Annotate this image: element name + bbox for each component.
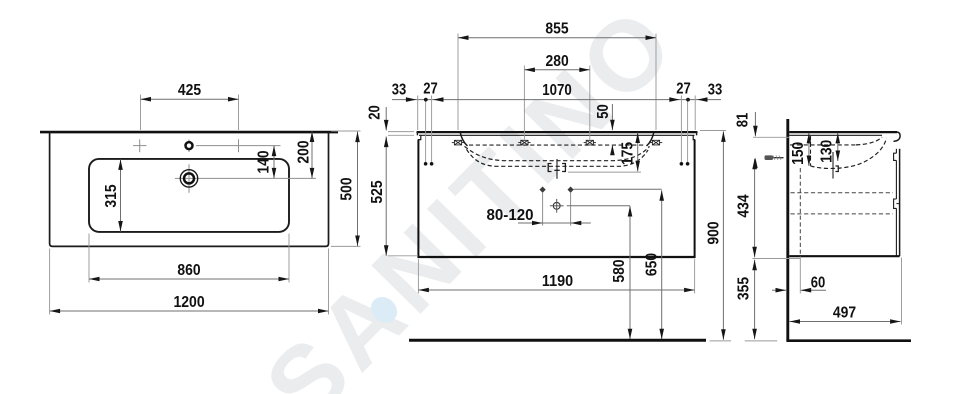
dimension 150: [808, 133, 810, 166]
svg-text:33: 33: [392, 82, 407, 99]
dimension 900 extension: [700, 130, 726, 132]
svg-text:355: 355: [736, 277, 753, 301]
tap hole position far right: [652, 140, 659, 145]
dimension 20: [385, 107, 387, 130]
svg-text:900: 900: [705, 221, 722, 244]
dimension 1190: [418, 289, 694, 291]
dimension 1190 extension lines: [417, 259, 419, 294]
cabinet bottom side view: [789, 255, 899, 257]
dimension 860 extension lines: [88, 234, 90, 283]
supply height line to 650: [574, 188, 662, 190]
dimension 280: [524, 69, 589, 71]
drain outlet: [556, 159, 558, 179]
left view tap hole cross right: [238, 139, 240, 152]
dimension 650: [661, 190, 663, 339]
svg-text:27: 27: [676, 80, 691, 97]
dimension 580: [629, 206, 631, 339]
tap hole position far left: [454, 140, 461, 145]
left view basin outer rim: [50, 131, 329, 246]
svg-text:525: 525: [369, 180, 386, 204]
hidden bowl inner contour dashed: [465, 146, 650, 160]
svg-text:434: 434: [736, 194, 753, 218]
svg-text:1190: 1190: [542, 273, 573, 290]
floor line side view: [786, 339, 911, 342]
svg-text:175: 175: [620, 142, 637, 166]
dimension 50: [611, 104, 613, 130]
dimension 81: [754, 112, 756, 136]
hidden bowl front dashed side: [856, 137, 882, 145]
washbasin slab bottom: [419, 134, 695, 136]
fixing screws right pair: [680, 162, 684, 166]
dimension 855 extension lines: [457, 34, 459, 131]
dimension 425: [141, 98, 239, 100]
svg-text:860: 860: [177, 262, 200, 279]
left view centerline through overflow hole: [133, 145, 147, 147]
handle recess bottom drawer: [894, 199, 897, 208]
dimension 355: [754, 260, 756, 340]
dimension 20 extensions: [388, 131, 414, 133]
dimension 280 extension lines: [523, 66, 525, 140]
water supply connection right: [567, 186, 573, 192]
dimension 434: [754, 159, 756, 258]
water supply connection left: [539, 186, 545, 192]
bowl left visible edge: [460, 133, 467, 146]
left view faucet hole: [180, 170, 197, 187]
left view faucet hole centerlines: [188, 164, 190, 192]
handle recess top drawer: [894, 153, 897, 160]
watermark blue drop: [366, 292, 403, 329]
dimension 315: [120, 159, 122, 231]
dimension 1200: [50, 310, 329, 312]
side slab bottom: [789, 134, 882, 136]
bowl right visible edge: [647, 133, 654, 146]
svg-text:1070: 1070: [542, 82, 572, 99]
svg-text:650: 650: [644, 253, 661, 276]
floor line middle view: [409, 339, 706, 342]
svg-text:315: 315: [103, 184, 120, 208]
hidden bowl back wall dashed: [810, 136, 812, 166]
wall line: [786, 119, 789, 341]
waste height line to 580: [567, 205, 630, 207]
svg-text:1200: 1200: [173, 294, 204, 311]
svg-text:20: 20: [367, 105, 384, 120]
siphon space dashed line: [799, 168, 801, 256]
hidden bowl bottom dashed side: [811, 138, 887, 168]
cabinet right edge: [694, 140, 696, 257]
left view wall line: [40, 131, 338, 134]
basin front rim: [894, 132, 901, 141]
svg-text:580: 580: [611, 259, 628, 282]
washbasin slab top: [418, 131, 697, 133]
tap hole position left: [521, 140, 528, 145]
svg-text:81: 81: [735, 112, 752, 127]
left view basin inner bowl: [89, 159, 289, 232]
cabinet bottom edge: [417, 256, 695, 258]
drawer front line: [899, 149, 901, 256]
hidden slab underside dashed: [469, 144, 645, 146]
dimension 130: [837, 133, 839, 161]
dimension 80-120: [518, 222, 591, 224]
svg-text:500: 500: [339, 177, 356, 200]
top dimension line 33 27 1070 27 33: [392, 99, 721, 101]
dimension 500 extension lines: [331, 130, 361, 132]
svg-text:27: 27: [423, 80, 438, 97]
drawer interior dashed lines: [791, 192, 894, 194]
dimension 1200 extension lines: [49, 249, 51, 315]
side slab top: [789, 131, 897, 133]
svg-text:497: 497: [833, 305, 856, 322]
svg-text:425: 425: [178, 82, 202, 99]
dimension 140: [273, 146, 275, 179]
svg-text:140: 140: [256, 150, 273, 173]
svg-text:150: 150: [790, 142, 807, 165]
washbasin slab left end: [416, 131, 418, 135]
dimension 855: [458, 37, 656, 39]
hidden slab underside dashed side: [790, 144, 856, 146]
left view overflow hole: [186, 142, 193, 149]
dimension 500: [357, 132, 359, 246]
wall anchor screw: [766, 157, 784, 159]
watermark SANITINO: [244, 0, 698, 394]
washbasin slab right end: [696, 131, 698, 135]
svg-text:50: 50: [595, 104, 612, 119]
arrows and dots on top dimension line: [406, 97, 417, 102]
tap hole position right: [586, 140, 593, 145]
dimension 60: [772, 289, 786, 291]
dimension 497: [790, 321, 901, 323]
svg-text:60: 60: [811, 275, 826, 292]
svg-text:855: 855: [545, 21, 569, 38]
svg-text:33: 33: [708, 82, 723, 99]
dimension 497 extension: [901, 258, 903, 325]
dimension 200: [311, 132, 313, 179]
svg-text:80-120: 80-120: [487, 207, 534, 224]
cabinet left edge: [417, 140, 419, 257]
svg-text:280: 280: [546, 53, 569, 70]
waste pipe connection crosshair: [553, 202, 560, 209]
dimension 525: [385, 137, 387, 256]
dimension 175: [637, 133, 639, 172]
drain pipe side view: [832, 152, 834, 179]
svg-text:200: 200: [296, 140, 313, 163]
dimension 900: [722, 131, 724, 339]
svg-text:130: 130: [819, 140, 836, 163]
dimension 860: [89, 278, 289, 280]
extension lines screw dims right: [694, 96, 696, 131]
extension lines screw dims left: [417, 96, 419, 131]
fixing screws left pair: [424, 162, 428, 166]
drawer separation line: [896, 203, 899, 205]
dimension 425 extension lines: [140, 95, 142, 131]
left view tap hole cross left: [139, 139, 141, 152]
drawer front inner line: [895, 149, 897, 153]
hidden bowl outer contour dashed: [467, 149, 649, 166]
